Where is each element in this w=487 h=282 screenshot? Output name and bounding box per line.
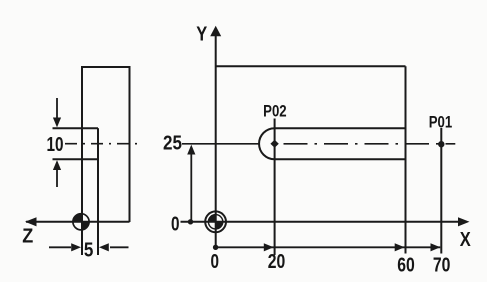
svg-text:X: X [460, 229, 472, 251]
svg-text:25: 25 [163, 132, 182, 154]
svg-text:P02: P02 [263, 102, 287, 121]
svg-text:10: 10 [47, 134, 64, 156]
svg-text:5: 5 [84, 239, 94, 261]
svg-text:0: 0 [211, 251, 220, 273]
svg-text:P01: P01 [429, 112, 453, 131]
svg-text:60: 60 [397, 254, 415, 276]
svg-text:0: 0 [171, 213, 180, 235]
svg-text:Z: Z [22, 225, 33, 247]
svg-text:20: 20 [268, 251, 286, 273]
svg-text:Y: Y [196, 24, 208, 46]
svg-text:70: 70 [433, 254, 451, 276]
